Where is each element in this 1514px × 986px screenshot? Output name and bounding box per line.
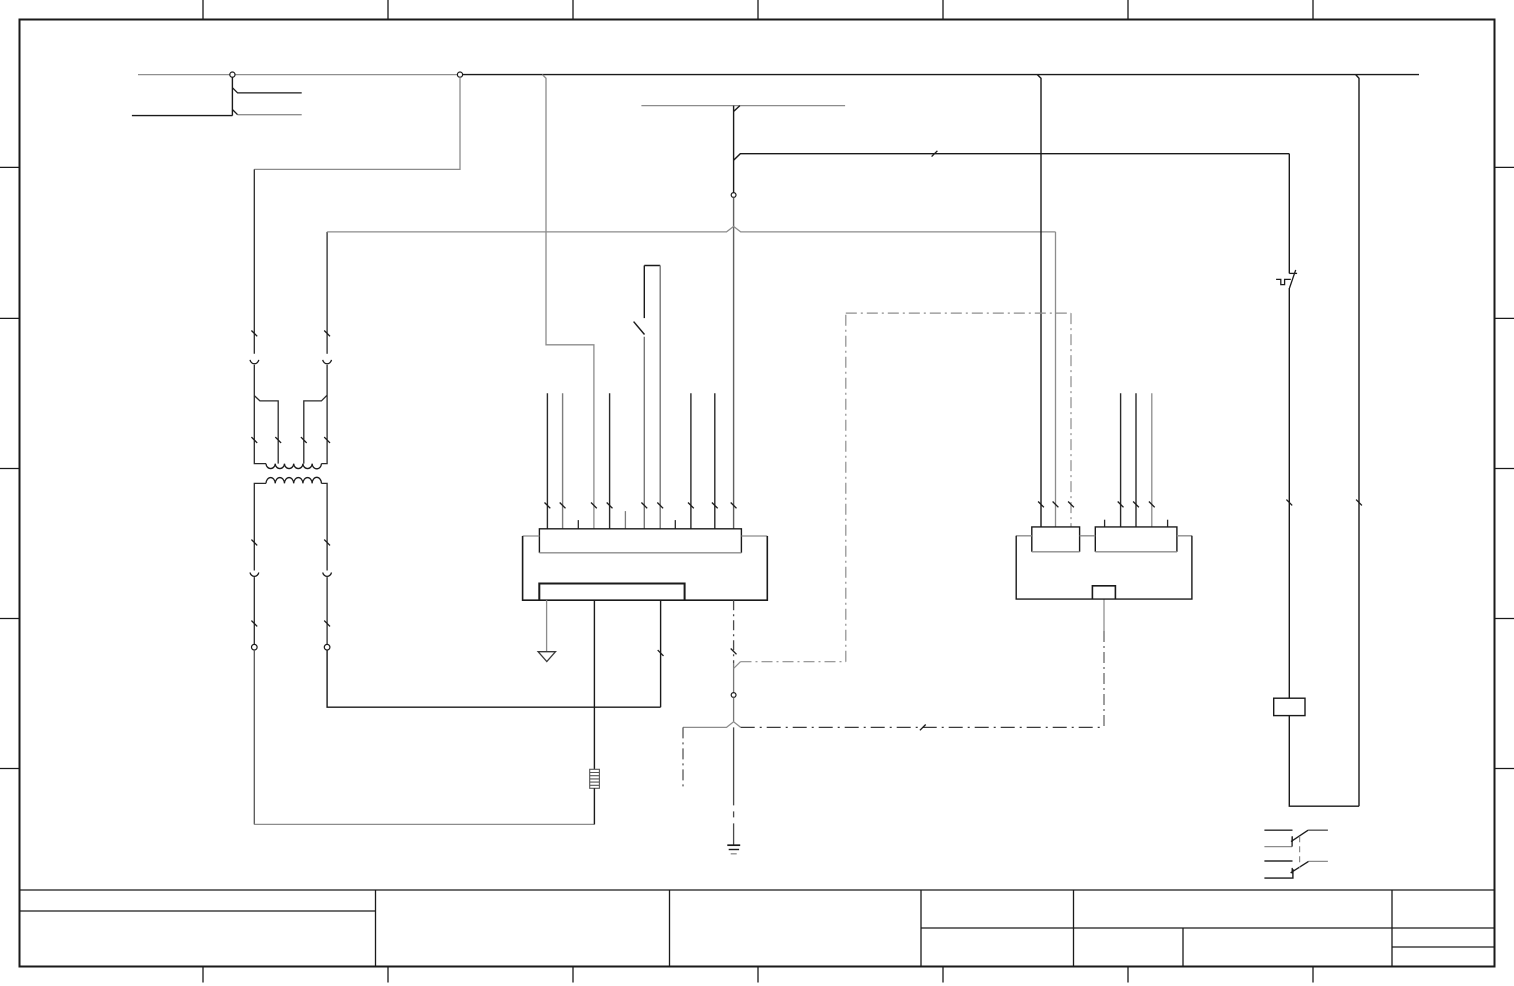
- mechanical link (dashed): [1299, 836, 1301, 868]
- wire K1 to bottom joining rail: [1289, 716, 1359, 807]
- node junction at x=460: [457, 72, 462, 77]
- ground symbol: [727, 845, 740, 854]
- cable shield link 2 (dash-dot to right connector) with peak junction: [683, 722, 741, 728]
- wire from top bus down to connector -X20 (black): [1037, 75, 1041, 527]
- wire connector to ferrite (black): [593, 600, 595, 769]
- wire right riser from top bus (black): [1356, 75, 1359, 807]
- wire node to peak: [733, 697, 735, 721]
- earth arrow below connector (open triangle): [538, 600, 555, 661]
- wire branch stub lower (gray): [232, 110, 301, 115]
- wire slash mark: [1038, 502, 1044, 508]
- wire gray down to connector -X20 (right): [1055, 232, 1057, 527]
- wire slash mark: [658, 650, 664, 656]
- plug socket contact left primary: [250, 360, 259, 364]
- wire to right contact (black) y=153.7: [734, 154, 1290, 161]
- wire slash mark: [324, 621, 330, 627]
- shield drop from right connector (gray then dash-dot): [1103, 599, 1105, 727]
- connector X20 plug B: [1095, 527, 1177, 552]
- wire from node x=460 down and left to transformer primary (gray): [254, 77, 460, 169]
- wire L1 feeder (gray top bus left): [138, 74, 460, 76]
- wire slash mark: [1068, 502, 1074, 508]
- transformer primary right lead (black): [321, 232, 327, 464]
- wire slash mark: [1053, 502, 1059, 508]
- wire slash mark: [324, 540, 330, 546]
- wire secondary right down and right (black): [327, 650, 660, 707]
- connector X10 inner block: [539, 584, 684, 601]
- wire switch return lead (gray): [659, 266, 661, 529]
- wire slash mark: [731, 503, 737, 509]
- thermal switch F1 above central connector: [634, 266, 661, 335]
- primary tap wire right: [304, 395, 327, 463]
- terminal node circle right: [324, 644, 330, 650]
- transformer primary left lead (black): [254, 169, 266, 463]
- wire slash marks on primary leads: [251, 437, 330, 443]
- wire solid segment to node: [733, 663, 735, 692]
- wire from top bus down to connector pin 593.9 (gray): [542, 75, 594, 529]
- connector X10 stub pins: [578, 520, 675, 529]
- connector X20 body outline: [1016, 536, 1192, 599]
- wire vertical x=733.6 from T-jog down to node: [734, 106, 740, 193]
- wire slash mark: [251, 540, 257, 546]
- contact 1 fixed lead: [1264, 829, 1292, 831]
- wire ferrite to bottom rail: [593, 788, 595, 824]
- wire slash mark: [1286, 500, 1292, 506]
- cable shield boundary 1 (dash-dot loop to connector -X20): [734, 313, 1071, 668]
- connector X10 top strip: [539, 529, 741, 553]
- contact 2 second lead (black with upturn): [1264, 869, 1293, 878]
- node junction x=733.6 y=695: [731, 693, 736, 698]
- wire N feeder (black, lower-left): [132, 77, 233, 115]
- transformer T1 primary winding: [266, 464, 321, 469]
- wire slash marks on pins: [545, 503, 718, 509]
- contact 2 output lead: [1309, 860, 1328, 862]
- connector X20 shield tab: [1092, 586, 1115, 599]
- wire slash mark: [251, 621, 257, 627]
- contact 1 second lead (gray with upturn): [1264, 837, 1292, 847]
- wire slash marks: [641, 503, 663, 509]
- wire slash mark: [932, 151, 938, 157]
- connector X10 pin (gray): [562, 393, 564, 529]
- shield wire (dash-dot) from connector pin 733.6 down: [733, 600, 735, 663]
- connector X10 stub pin (gray): [624, 511, 626, 529]
- primary tap wire left: [254, 396, 278, 464]
- connector X10 body outline: [523, 536, 768, 600]
- plug socket contact left secondary: [250, 573, 259, 577]
- wire slash mark: [1356, 500, 1362, 506]
- wire slash mark: [324, 331, 330, 337]
- title block: [20, 890, 1495, 967]
- shield stub (dash-dot): [682, 727, 684, 789]
- wire slash mark: [731, 649, 737, 655]
- shield wire peak to ground (dash-dot): [733, 727, 735, 845]
- wire x=733.6 node to connector pin (gray): [733, 197, 735, 528]
- wire secondary left down to bottom rail (gray): [253, 650, 255, 824]
- wire switch lower lead (gray): [643, 337, 645, 529]
- wire slash mark: [920, 725, 926, 731]
- wire slash mark: [251, 331, 257, 337]
- contact 2 fixed lead: [1264, 860, 1292, 862]
- wire connector to left rail y=707 (black): [660, 600, 662, 707]
- transformer T1 secondary winding: [266, 477, 321, 483]
- transformer secondary left lead: [254, 483, 266, 644]
- NC contact S1 upper lead: [1288, 154, 1290, 274]
- NC contact S1: [1276, 270, 1297, 288]
- contact 1 output lead: [1308, 829, 1328, 831]
- ferrite / shield clamp element: [590, 769, 600, 788]
- wire branch stub upper (black): [232, 88, 301, 93]
- contact 2 blade: [1291, 861, 1309, 873]
- node junction at x=232: [230, 72, 235, 77]
- transformer secondary right lead: [321, 483, 327, 644]
- wire mid horizontal gray net y=105.6: [641, 105, 845, 107]
- connector X20 pins into box B: [1121, 393, 1136, 527]
- NC contact S1 lower lead: [1288, 288, 1290, 698]
- node junction x=733.6 y=195: [731, 193, 736, 198]
- contact 1 blade: [1291, 830, 1308, 842]
- component K1 (small box on riser): [1274, 698, 1305, 715]
- wire slash mark: [591, 503, 597, 509]
- wire bottom rail to ferrite (gray): [254, 823, 594, 825]
- terminal node circle left: [252, 644, 258, 650]
- connector X10 pins (vertical wires into top strip): [547, 393, 714, 529]
- plug socket contact right secondary: [323, 573, 332, 577]
- wire horizontal gray net y=231.9 with peak junction: [327, 226, 1055, 232]
- connector X20 stub pins: [1105, 520, 1168, 527]
- plug socket contact right primary: [323, 360, 332, 364]
- connector X20 plug A: [1032, 527, 1080, 552]
- wire slash marks: [1118, 502, 1155, 508]
- wire top bus right (black): [460, 74, 1419, 76]
